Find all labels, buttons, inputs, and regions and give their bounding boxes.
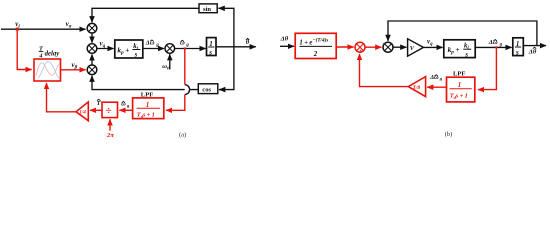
wire LPF (b) output into gain T/8 — [427, 86, 446, 88]
svg-text:Δθ: Δθ — [528, 48, 537, 55]
svg-text:g: g — [439, 76, 443, 81]
svg-text:÷: ÷ — [106, 105, 112, 117]
node delta omega_g hat label (b) — [488, 39, 503, 48]
svg-text:s: s — [208, 48, 212, 56]
wire M3 output up into S2 — [91, 54, 93, 65]
integrator block 1/s — [207, 38, 217, 57]
wire LPF output to divider — [119, 109, 132, 111]
svg-text:g: g — [185, 43, 189, 48]
svg-text:(a): (a) — [179, 131, 186, 138]
wire cos feedback into M3 bottom — [92, 76, 185, 90]
node delta omega_g hat label small (b) — [429, 74, 443, 81]
svg-text:g: g — [155, 43, 159, 48]
svg-text:s: s — [515, 48, 519, 56]
sin block — [199, 4, 217, 13]
svg-text:Tds + 1: Tds + 1 — [137, 111, 155, 118]
svg-text:2: 2 — [313, 51, 318, 58]
wire red from vi tap down to delay block — [17, 29, 31, 69]
svg-text:kp +: kp + — [117, 45, 129, 56]
PI controller block (b) — [444, 40, 475, 59]
svg-text:vα: vα — [66, 20, 72, 30]
svg-text:Δθ: Δθ — [280, 36, 289, 43]
wire theta hat output — [216, 46, 256, 48]
svg-text:−(T/4)s: −(T/4)s — [313, 36, 329, 43]
wire top feedback from output into Sb2 — [388, 21, 537, 46]
svg-text:Tds + 1: Tds + 1 — [450, 92, 468, 99]
wire M1 output down into S2 — [91, 33, 93, 43]
summing junction S2 — [87, 44, 97, 54]
svg-text:4: 4 — [38, 53, 42, 60]
gain block 1/4 triangle — [76, 102, 88, 121]
svg-text:V: V — [410, 45, 415, 52]
wire omega_n input into S4 bottom — [169, 54, 171, 69]
label T/4 delay — [38, 45, 60, 59]
summing junction Sb1 red — [354, 42, 365, 52]
wire feedback vertical to sin and cos — [219, 8, 234, 89]
svg-text:vq: vq — [100, 40, 106, 50]
wire gain T/8 output up into Sb1 bottom — [360, 54, 409, 87]
arrow into cos box — [219, 89, 225, 91]
LPF block (b) — [447, 77, 475, 102]
wire 2pi input into divider bottom — [109, 119, 111, 130]
wire Sb1 output into Sb2 — [365, 46, 381, 48]
wire V output into PI block — [423, 46, 442, 48]
wire v_beta from delay to multiplier M3 — [61, 69, 86, 71]
wire red tap down to LPF (b) — [478, 47, 496, 89]
divider block — [102, 102, 118, 117]
wire PI output into integrator (b) — [475, 46, 511, 48]
gain block T/8 triangle — [408, 77, 425, 97]
wire gain output up into delay block bottom — [47, 83, 77, 112]
node omega_g hat label small — [121, 101, 130, 108]
wire delta theta hat output — [523, 45, 546, 47]
node T hat label — [97, 99, 101, 107]
svg-text:(b): (b) — [445, 131, 452, 138]
svg-text:vq: vq — [427, 38, 433, 48]
multiplier M3 — [87, 65, 97, 75]
wire S4 output to integrator — [175, 48, 206, 50]
svg-text:Δω: Δω — [429, 74, 439, 81]
svg-text:ωn: ωn — [162, 63, 170, 71]
cos block — [198, 84, 218, 94]
wire vi input horizontal — [1, 28, 86, 30]
svg-text:cos: cos — [202, 86, 211, 93]
multiplier M1 — [87, 23, 97, 33]
arrow into sin box — [219, 7, 225, 9]
PI controller block kp+ki/s — [115, 40, 143, 59]
svg-text:1/4: 1/4 — [79, 110, 86, 116]
svg-text:T/8: T/8 — [413, 85, 421, 91]
wire sin feedback into M1 top — [92, 8, 199, 22]
svg-text:1 + e: 1 + e — [299, 40, 312, 47]
wire S2 output to PI block — [97, 48, 114, 50]
summing junction Sb2 black — [383, 42, 393, 52]
summing junction S4 — [165, 44, 175, 54]
integrator block 1/s (b) — [513, 38, 524, 57]
gain block V triangle — [408, 39, 424, 56]
svg-text:Δω: Δω — [145, 39, 155, 46]
svg-text:s: s — [464, 51, 468, 58]
wire divider output to gain 1/4 — [90, 109, 102, 111]
T/4 delay block D1 — [34, 59, 61, 81]
LPF block (a) 1/(Td s+1) — [133, 98, 164, 119]
svg-text:1: 1 — [146, 101, 150, 109]
svg-text:1: 1 — [458, 81, 462, 89]
svg-text:Δω: Δω — [488, 39, 498, 46]
wire Sb2 output into gain V — [393, 46, 406, 48]
svg-text:g: g — [499, 42, 503, 47]
junction dot red on omega_g wire — [184, 47, 186, 49]
wire PI output into S4 — [143, 48, 164, 50]
svg-text:s: s — [134, 52, 138, 59]
svg-text:sin: sin — [203, 6, 211, 13]
svg-text:vβ: vβ — [72, 61, 78, 71]
node theta hat label — [246, 39, 250, 46]
block (1+e^-(T/4)s)/2 — [295, 33, 336, 58]
node delta theta hat label — [528, 47, 537, 55]
svg-text:g: g — [126, 103, 130, 108]
node delta omega_g hat label — [145, 39, 160, 48]
node omega_g hat label — [180, 40, 189, 48]
junction dot red on vi line — [16, 28, 19, 31]
wire input into delay-sum block — [280, 45, 294, 47]
wire red omega_g tap down to LPF input — [166, 49, 185, 111]
wire hop over red line — [185, 85, 199, 95]
svg-text:delay: delay — [45, 50, 61, 57]
junction dot red on PI output wire — [495, 46, 497, 48]
svg-text:2π: 2π — [106, 132, 114, 139]
wire block output into red sum Sb1 — [336, 46, 353, 48]
